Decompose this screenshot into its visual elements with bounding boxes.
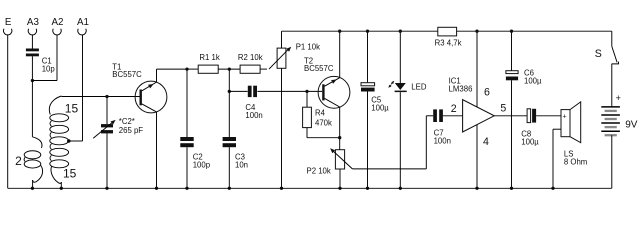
svg-text:15: 15 <box>63 167 77 181</box>
wire LED to ground rail <box>399 92 401 188</box>
wire supply rail right of R3 <box>457 30 612 32</box>
node C6-ground <box>510 187 513 190</box>
wire battery to ground rail <box>611 135 613 188</box>
LED D1 <box>388 81 427 92</box>
wire ground rail <box>8 187 612 189</box>
wire E to ground rail <box>7 35 9 188</box>
node A3/A2 junction <box>31 79 34 82</box>
svg-text:100p: 100p <box>193 160 211 169</box>
svg-text:10p: 10p <box>42 65 56 74</box>
wire A1 to coil tap <box>82 35 84 141</box>
svg-text:LED: LED <box>411 82 427 91</box>
svg-text:R3 4,7k: R3 4,7k <box>435 38 462 47</box>
node T1/C2/R1 <box>185 67 188 70</box>
svg-text:A3: A3 <box>27 17 40 28</box>
wire secondary coil to ground rail <box>60 182 62 188</box>
wire supply rail to C5 <box>367 31 369 82</box>
loudspeaker LS 8 Ohm <box>561 102 587 167</box>
svg-text:E: E <box>5 17 12 28</box>
node pin4-ground <box>475 187 478 190</box>
node C3-ground <box>228 187 231 190</box>
node R4/T2 base <box>305 90 308 93</box>
terminal A2 <box>52 17 64 35</box>
node C6-supply <box>510 30 513 33</box>
wire P2 bottom to ground rail <box>339 169 341 188</box>
node LED-ground <box>399 187 402 190</box>
wire switch to battery <box>611 64 613 107</box>
wire node to R4 <box>306 91 308 107</box>
capacitor C3 10n <box>223 137 248 169</box>
node R4/T2 collector/P2 <box>338 136 341 139</box>
node C2var-ground <box>105 187 108 190</box>
svg-text:8 Ohm: 8 Ohm <box>564 158 587 167</box>
wire primary coil to ground rail <box>32 180 34 188</box>
capacitor C4 100n <box>245 86 262 121</box>
svg-text:A2: A2 <box>52 17 64 28</box>
capacitor C7 100n <box>433 109 451 145</box>
node coil tap <box>67 139 71 143</box>
node T2-supply <box>338 30 341 33</box>
wire T2 emitter to supply rail <box>339 31 341 77</box>
svg-text:100µ: 100µ <box>371 103 389 112</box>
wire secondary top to T1 base <box>62 96 140 98</box>
node P1-ground <box>280 187 283 190</box>
svg-text:2: 2 <box>15 154 22 168</box>
wire node to primary coil <box>31 81 33 137</box>
wire C8 to speaker <box>536 115 561 117</box>
transistor T1 BC557C <box>112 63 167 113</box>
wire node to A2 <box>32 80 57 82</box>
svg-text:S: S <box>595 48 602 60</box>
wire R1 to R2 <box>218 68 240 70</box>
svg-text:100µ: 100µ <box>524 76 542 85</box>
svg-text:A1: A1 <box>77 17 89 28</box>
wire C5 to ground rail <box>367 92 369 189</box>
switch S <box>595 46 619 64</box>
inductor L2 secondary (15+15 turns) <box>49 96 78 183</box>
wire C2 to ground rail <box>186 147 188 188</box>
capacitor C8 100u electrolytic <box>521 109 539 147</box>
wire node to C4 <box>229 90 247 92</box>
battery BT1 9V <box>601 93 637 135</box>
node C5-ground <box>366 187 369 190</box>
svg-text:6: 6 <box>484 87 490 99</box>
svg-text:265 pF: 265 pF <box>119 126 144 135</box>
svg-text:+: + <box>616 93 621 103</box>
wire pin 5 output to C8 <box>494 115 527 117</box>
terminal A1 <box>77 17 89 35</box>
svg-text:P2 10k: P2 10k <box>307 166 331 175</box>
capacitor C1 <box>26 49 55 74</box>
resistor R1 1k <box>198 53 220 73</box>
wire C7 to pin 2 <box>443 115 463 117</box>
svg-text:2: 2 <box>451 103 457 115</box>
svg-text:R4: R4 <box>315 108 326 117</box>
node P2-ground <box>338 187 341 190</box>
svg-text:BC557C: BC557C <box>112 70 142 79</box>
svg-text:LM386: LM386 <box>449 85 473 94</box>
wire node to R1 <box>187 68 198 70</box>
wire C2var to ground rail <box>106 133 108 188</box>
potentiometer P1 10k <box>269 42 320 69</box>
wire supply rail left of R3 <box>282 30 438 32</box>
svg-text:P1 10k: P1 10k <box>296 42 320 51</box>
node speaker-ground <box>551 187 554 190</box>
wire R4 to T2 collector node <box>306 128 308 138</box>
node C5-supply <box>366 30 369 33</box>
svg-text:9V: 9V <box>625 120 638 131</box>
wire C1 to node <box>31 56 33 80</box>
node C3/C4 <box>228 90 231 93</box>
variable capacitor *C2* 265pF <box>93 117 143 138</box>
wire A3 to C1 <box>31 35 33 49</box>
wire node to C2var <box>106 97 108 125</box>
node primary-ground <box>31 187 34 190</box>
node R1/R2 <box>228 67 231 70</box>
wire P1 bottom to ground rail <box>281 68 283 188</box>
capacitor C5 100u electrolytic <box>361 83 389 113</box>
wire R2 to P1 wiper <box>260 68 267 70</box>
wire T1 collector to ground rail <box>156 112 158 188</box>
node secondary-ground <box>60 187 63 190</box>
wire pin 4 to ground rail <box>476 125 478 189</box>
wire node to C3 <box>228 91 230 137</box>
node pin6-supply <box>475 30 478 33</box>
wire P1 top to supply rail <box>281 31 283 48</box>
wire supply rail corner to switch <box>611 31 613 46</box>
potentiometer P2 10k <box>307 148 353 175</box>
wire speaker return to ground rail <box>553 128 561 130</box>
svg-text:BC557C: BC557C <box>304 64 334 73</box>
svg-text:+: + <box>563 113 567 120</box>
inductor L1 primary (2 turns) <box>15 137 42 182</box>
wire T2 collector down to P2 <box>339 107 341 150</box>
node LED-supply <box>399 30 402 33</box>
terminal E <box>4 17 12 35</box>
transistor T2 BC557C <box>304 56 350 108</box>
capacitor C2 100p <box>180 137 210 169</box>
wire C3 to ground rail <box>228 147 230 188</box>
node C2-ground <box>185 187 188 190</box>
svg-text:100n: 100n <box>245 111 262 120</box>
svg-text:4: 4 <box>483 136 489 148</box>
wire P2 wiper to C7 <box>352 168 426 170</box>
node T1-ground <box>155 187 158 190</box>
op-amp IC1 LM386 <box>449 77 507 149</box>
wire node to C2 <box>186 69 188 137</box>
wire pin 6 to supply rail <box>476 31 478 107</box>
svg-text:R1 1k: R1 1k <box>199 53 219 62</box>
wire T1 emitter up to R1 node <box>156 69 158 82</box>
wire supply rail to C6 <box>511 31 513 70</box>
svg-text:R2 10k: R2 10k <box>238 53 263 62</box>
terminal A3 <box>27 17 40 35</box>
wire R1/R2 node down <box>228 69 230 91</box>
svg-text:*C2*: *C2* <box>119 117 135 126</box>
wire C4 to T2 base <box>257 90 322 92</box>
svg-text:5: 5 <box>500 103 506 115</box>
node base/C2var junction <box>105 95 108 98</box>
resistor R2 10k <box>238 53 263 73</box>
svg-text:100n: 100n <box>434 137 451 146</box>
svg-text:470k: 470k <box>315 118 332 127</box>
svg-text:15: 15 <box>65 101 79 115</box>
resistor R3 4,7k <box>435 27 462 47</box>
resistor R4 470k <box>303 107 332 127</box>
svg-text:10n: 10n <box>235 160 248 169</box>
svg-text:100µ: 100µ <box>521 137 539 146</box>
capacitor C6 100u electrolytic <box>506 68 542 85</box>
wire supply rail to LED <box>399 31 401 83</box>
wire C6 to ground rail <box>511 80 513 188</box>
